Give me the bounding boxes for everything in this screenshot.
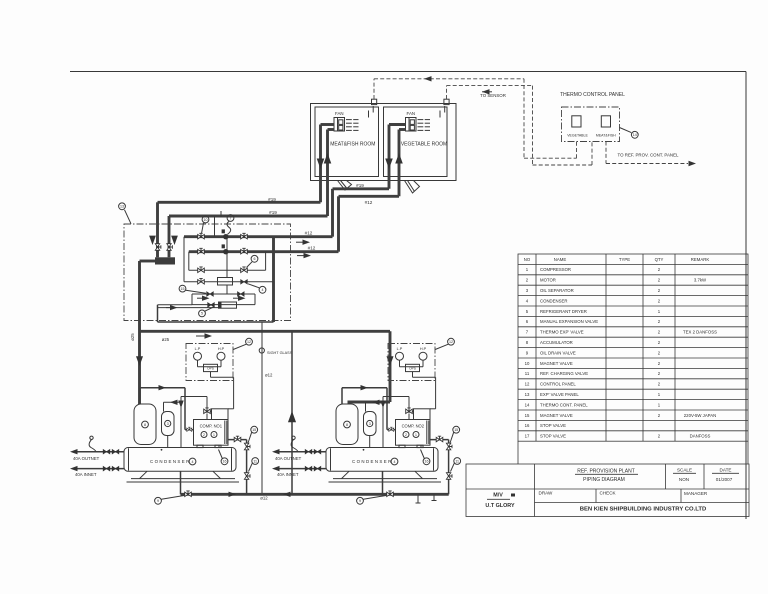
- svg-text:REF. CHARGING VALVE: REF. CHARGING VALVE: [540, 371, 588, 376]
- svg-text:ø12: ø12: [260, 495, 268, 500]
- svg-text:QTY: QTY: [655, 257, 664, 262]
- svg-text:NO: NO: [524, 257, 531, 262]
- svg-text:11: 11: [525, 371, 530, 376]
- svg-text:4: 4: [192, 460, 194, 464]
- svg-text:10: 10: [525, 361, 530, 366]
- svg-text:CONTROL PANEL: CONTROL PANEL: [540, 382, 576, 387]
- svg-text:CHECK: CHECK: [600, 490, 617, 495]
- svg-text:MEAT&FISH ROOM: MEAT&FISH ROOM: [330, 142, 375, 148]
- svg-text:15: 15: [525, 413, 530, 418]
- svg-text:STOP VALVE: STOP VALVE: [540, 434, 566, 439]
- svg-text:ø25: ø25: [162, 337, 170, 342]
- svg-text:FAN: FAN: [335, 111, 344, 116]
- svg-text:COMP. NO2: COMP. NO2: [402, 424, 425, 429]
- svg-text:5: 5: [201, 312, 203, 316]
- svg-text:SCALE: SCALE: [677, 468, 692, 473]
- svg-text:16: 16: [223, 460, 227, 464]
- svg-text:ACCUMULATOR: ACCUMULATOR: [540, 340, 573, 345]
- svg-text:COMPRESSOR: COMPRESSOR: [540, 267, 571, 272]
- svg-text:NON: NON: [679, 477, 689, 482]
- svg-text:14: 14: [633, 133, 637, 137]
- svg-text:17: 17: [525, 434, 530, 439]
- svg-text:THERMO CONTROL PANEL: THERMO CONTROL PANEL: [560, 92, 625, 98]
- svg-text:TO REF. PROV. CONT. PANEL: TO REF. PROV. CONT. PANEL: [618, 153, 679, 158]
- svg-text:REMARK: REMARK: [691, 257, 710, 262]
- svg-text:6: 6: [254, 257, 256, 261]
- svg-text:REF. PROVISION PLANT: REF. PROVISION PLANT: [577, 469, 635, 475]
- svg-text:MANAGER: MANAGER: [684, 491, 708, 496]
- svg-text:#19: #19: [356, 183, 364, 188]
- svg-text:MANUAL EXPANSION VALVE: MANUAL EXPANSION VALVE: [540, 319, 598, 324]
- svg-text:H.P: H.P: [420, 347, 427, 351]
- svg-text:M/V: M/V: [493, 493, 503, 499]
- svg-text:9: 9: [359, 499, 361, 503]
- svg-text:L.P: L.P: [195, 347, 201, 351]
- svg-text:OPS: OPS: [207, 366, 214, 370]
- svg-text:2: 2: [405, 433, 407, 437]
- svg-text:15: 15: [454, 428, 458, 432]
- svg-text:REFRIGERANT DRYER: REFRIGERANT DRYER: [540, 309, 587, 314]
- svg-text:11: 11: [455, 459, 459, 463]
- svg-text:#19: #19: [268, 197, 276, 202]
- svg-text:#12: #12: [305, 230, 313, 235]
- svg-text:MOTOR: MOTOR: [540, 278, 556, 283]
- svg-text:12: 12: [247, 340, 251, 344]
- svg-text:4: 4: [262, 288, 264, 292]
- svg-text:10: 10: [204, 218, 208, 222]
- svg-text:THERMO EXP' VALVE: THERMO EXP' VALVE: [540, 330, 584, 335]
- svg-text:12: 12: [449, 340, 453, 344]
- svg-text:VEGETABLE: VEGETABLE: [567, 134, 588, 138]
- svg-text:MEAT&FISH: MEAT&FISH: [596, 134, 616, 138]
- svg-text:01/2007: 01/2007: [716, 477, 733, 482]
- svg-text:1: 1: [415, 433, 417, 437]
- svg-text:8: 8: [346, 423, 348, 427]
- svg-text:ø25: ø25: [130, 333, 135, 341]
- svg-text:OIL SEPARATOR: OIL SEPARATOR: [540, 288, 574, 293]
- svg-text:15: 15: [252, 428, 256, 432]
- svg-text:9: 9: [157, 499, 159, 503]
- svg-text:8: 8: [144, 423, 146, 427]
- svg-text:THERMO CONT. PANEL: THERMO CONT. PANEL: [540, 402, 588, 407]
- svg-text:CONDENSER: CONDENSER: [352, 459, 393, 464]
- svg-text:CONDENSER: CONDENSER: [540, 298, 567, 303]
- svg-text:7: 7: [230, 216, 232, 220]
- svg-text:TO SENSOR: TO SENSOR: [480, 93, 506, 98]
- svg-text:40A INNET: 40A INNET: [277, 472, 299, 477]
- svg-text:11: 11: [253, 459, 257, 463]
- svg-text:STOP VALVE: STOP VALVE: [540, 423, 566, 428]
- svg-text:DATE: DATE: [720, 468, 732, 473]
- svg-text:12: 12: [525, 382, 530, 387]
- svg-text:3: 3: [369, 422, 371, 426]
- svg-text:40A OUTNET: 40A OUTNET: [73, 456, 100, 461]
- svg-text:16: 16: [525, 423, 530, 428]
- svg-text:#12: #12: [365, 200, 373, 205]
- svg-text:BEN KIEN SHIPBUILDING INDUSTRY: BEN KIEN SHIPBUILDING INDUSTRY CO.LTD: [580, 507, 707, 513]
- svg-text:15: 15: [181, 287, 185, 291]
- svg-text:U.T GLORY: U.T GLORY: [485, 503, 515, 509]
- svg-text:DRAW: DRAW: [539, 490, 554, 495]
- svg-text:COMP. NO1: COMP. NO1: [200, 424, 223, 429]
- svg-text:NAME: NAME: [554, 257, 567, 262]
- svg-text:13: 13: [525, 392, 530, 397]
- svg-text:#19: #19: [269, 210, 277, 215]
- svg-text:40A OUTNET: 40A OUTNET: [275, 456, 302, 461]
- svg-text:SIGHT GLASS: SIGHT GLASS: [267, 351, 293, 355]
- svg-text:3.7kW: 3.7kW: [694, 278, 707, 283]
- svg-text:MAGNET VALVE: MAGNET VALVE: [540, 361, 573, 366]
- svg-text:MAGNET VALVE: MAGNET VALVE: [540, 413, 573, 418]
- svg-text:OPS: OPS: [409, 366, 416, 370]
- svg-text:EXP' VALVE PANEL: EXP' VALVE PANEL: [540, 392, 579, 397]
- svg-text:L.P: L.P: [397, 347, 403, 351]
- svg-text:CONDENSER: CONDENSER: [150, 459, 191, 464]
- svg-text:1: 1: [213, 433, 215, 437]
- svg-text:VEGETABLE ROOM: VEGETABLE ROOM: [401, 142, 447, 148]
- svg-text:FAN: FAN: [407, 111, 416, 116]
- svg-text:220V-5W JAPAN: 220V-5W JAPAN: [684, 413, 716, 418]
- svg-text:3: 3: [167, 422, 169, 426]
- svg-text:OIL DRAIN VALVE: OIL DRAIN VALVE: [540, 350, 576, 355]
- svg-text:DANFOSS: DANFOSS: [690, 434, 711, 439]
- svg-text:16: 16: [425, 460, 429, 464]
- svg-text:TYPE: TYPE: [619, 257, 630, 262]
- svg-text:#12: #12: [308, 246, 316, 251]
- svg-text:H.P: H.P: [218, 347, 225, 351]
- svg-text:13: 13: [120, 205, 124, 209]
- svg-text:ø12: ø12: [265, 373, 273, 378]
- svg-text:40A INNET: 40A INNET: [75, 472, 97, 477]
- svg-text:14: 14: [525, 402, 530, 407]
- svg-text:PIPING DIAGRAM: PIPING DIAGRAM: [583, 477, 625, 483]
- svg-text:TEX 2 DANFOSS: TEX 2 DANFOSS: [683, 330, 717, 335]
- svg-text:4: 4: [394, 460, 396, 464]
- svg-text:2: 2: [203, 433, 205, 437]
